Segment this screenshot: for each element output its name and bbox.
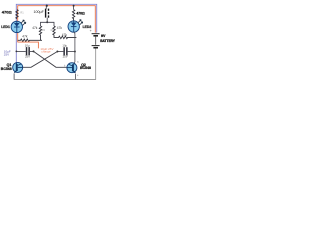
svg-text:470Ω: 470Ω — [2, 10, 13, 15]
capacitor C1 10uF — [16, 51, 18, 53]
wire Q2 emitter — [75, 74, 77, 80]
LED D2 — [68, 21, 79, 32]
svg-text:charge: charge — [41, 50, 51, 54]
svg-text:47k: 47k — [57, 26, 63, 30]
LED D1 arrows — [21, 20, 24, 23]
svg-text:R2: R2 — [42, 28, 46, 32]
wire right collector — [74, 32, 75, 64]
LED D2 arrows — [78, 20, 81, 23]
wire top rail purple — [16, 4, 96, 32]
wire left collector purple — [15, 32, 17, 63]
svg-text:BATTERY: BATTERY — [100, 39, 116, 43]
transistor Q2 — [67, 63, 77, 73]
wire left red highlight down to node — [17, 32, 19, 42]
wire top rail red highlight — [18, 6, 96, 33]
svg-text:R1: R1 — [20, 10, 24, 14]
svg-text:e: e — [77, 74, 79, 77]
resistor R6 470ohm right — [73, 5, 75, 7]
svg-text:BC548: BC548 — [80, 66, 91, 70]
svg-text:47k: 47k — [22, 35, 28, 39]
resistor R2 47k — [39, 26, 41, 40]
svg-text:BC548: BC548 — [1, 67, 12, 71]
resistor R1 470ohm — [16, 10, 18, 19]
svg-text:10µ: 10µ — [25, 43, 30, 47]
resistor R3 47k — [53, 26, 55, 37]
capacitor C2 10uF — [57, 51, 63, 53]
svg-text:47k: 47k — [32, 26, 38, 30]
svg-text:c: c — [77, 60, 79, 64]
svg-text:10µ: 10µ — [62, 44, 67, 48]
svg-text:25V: 25V — [25, 55, 30, 59]
wire orange highlight node — [18, 42, 39, 48]
transistor Q1 — [13, 62, 23, 72]
svg-text:R3: R3 — [51, 28, 55, 32]
svg-text:25V: 25V — [63, 55, 68, 59]
wire cross coupling D1 to Q2 base — [34, 51, 68, 67]
node mid rail — [46, 21, 48, 23]
wire cross coupling C2 to Q1 base — [56, 51, 58, 53]
svg-text:LED1: LED1 — [1, 25, 10, 29]
svg-text:470Ω: 470Ω — [76, 12, 85, 16]
svg-text:+: + — [90, 29, 92, 33]
svg-text:100µF: 100µF — [34, 10, 45, 14]
LED D1 — [11, 21, 22, 32]
svg-text:25V: 25V — [4, 53, 9, 57]
capacitor C5 100uF supply — [46, 5, 48, 7]
wire ground rail — [14, 79, 96, 81]
svg-text:9V: 9V — [101, 34, 106, 38]
wire battery to ground rail — [95, 49, 97, 80]
wire Q1 emitter — [13, 73, 15, 79]
